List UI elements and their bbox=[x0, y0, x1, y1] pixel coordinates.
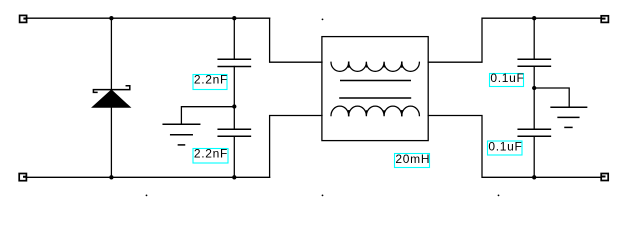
terminal pin top-right bbox=[601, 16, 608, 23]
node junction diode bottom bbox=[109, 175, 113, 179]
wire diode branch lower bbox=[110, 108, 112, 178]
wire top-left horizontal net L-in bbox=[27, 17, 270, 19]
transformer L1 box bbox=[322, 37, 428, 141]
terminal pin top-left bbox=[20, 15, 27, 22]
grid dot bbox=[146, 195, 148, 197]
node junction C4 bottom bbox=[532, 175, 536, 179]
capacitor C2 2.2nF plates bbox=[218, 129, 250, 136]
wire vertical into choke upper-left bbox=[270, 18, 322, 62]
capacitor C3 0.1uF plates bbox=[518, 59, 550, 66]
wire bottom-left horizontal net N-in bbox=[26, 176, 269, 178]
capacitor C4 lower stem bbox=[533, 136, 535, 177]
transformer L1 bottom winding bbox=[331, 106, 419, 116]
wire choke upper-right to top-right net bbox=[428, 18, 600, 62]
node junction C1-C2 mid bbox=[232, 104, 236, 108]
grid dot bbox=[322, 19, 324, 21]
ground GND1 bbox=[163, 124, 200, 145]
grid dot bbox=[498, 195, 500, 197]
svg-text:0.1uF: 0.1uF bbox=[490, 71, 524, 85]
terminal pin bottom-right bbox=[601, 174, 608, 181]
capacitor C1 2.2nF plates bbox=[218, 59, 250, 66]
svg-text:0.1uF: 0.1uF bbox=[488, 140, 522, 154]
capacitor C1 2.2nF stems bbox=[233, 18, 235, 59]
svg-text:2.2nF: 2.2nF bbox=[194, 147, 228, 161]
node junction C3-C4 mid bbox=[532, 86, 536, 90]
grid dot bbox=[322, 195, 324, 197]
diode D1 body bbox=[92, 90, 130, 108]
ground GND2 bbox=[551, 107, 587, 127]
wire choke lower-right to bottom-right net bbox=[428, 116, 600, 178]
wire diode branch upper bbox=[110, 18, 112, 89]
svg-text:20mH: 20mH bbox=[395, 152, 430, 166]
wire ground GND2 connection bbox=[534, 88, 569, 107]
label C4 value 0.1uF bbox=[488, 140, 523, 156]
node junction diode top bbox=[109, 16, 113, 20]
wire ground GND1 connection bbox=[181, 107, 234, 125]
node junction C1 top bbox=[232, 16, 236, 20]
transformer L1 core bbox=[340, 81, 410, 99]
node junction C2 bottom bbox=[232, 175, 236, 179]
transformer L1 top winding bbox=[331, 62, 419, 71]
node junction C3 top bbox=[532, 16, 536, 20]
wire vertical into choke lower-left bbox=[270, 116, 322, 178]
label C1 value 2.2nF bbox=[193, 73, 228, 90]
terminal pin bottom-left bbox=[19, 174, 26, 181]
capacitor C4 0.1uF plates bbox=[518, 129, 550, 136]
svg-text:2.2nF: 2.2nF bbox=[194, 73, 228, 87]
capacitor C2 lower stem bbox=[233, 136, 235, 177]
label L1 value 20mH bbox=[395, 152, 431, 167]
capacitor C3 0.1uF stems bbox=[533, 18, 535, 59]
label C3 value 0.1uF bbox=[490, 71, 525, 87]
diode D1 cathode bar (zener) bbox=[93, 86, 129, 93]
label C2 value 2.2nF bbox=[193, 147, 228, 163]
